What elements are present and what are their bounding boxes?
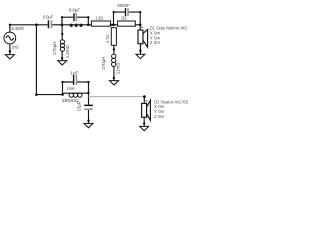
wire 600nF right riser <box>129 12 141 25</box>
svg-text:1µF: 1µF <box>70 70 78 75</box>
wire junction A riser down to low-pass <box>35 25 37 95</box>
capacitor C2 8.0uF plates <box>73 13 77 21</box>
ground G4 under C5 <box>84 123 93 127</box>
wire low-pass horizontal lead <box>36 94 62 96</box>
wire C5 to ground <box>88 110 90 123</box>
minus D1 <box>141 44 143 46</box>
wire right node vertical x=88.5 <box>88 82 90 105</box>
junction and pin dots <box>9 11 146 125</box>
svg-text:Z 0m: Z 0m <box>154 114 165 119</box>
svg-text:8.0µF: 8.0µF <box>69 7 80 12</box>
plus D1 <box>141 26 143 28</box>
resistor R3 4.7ohm box (vertical) <box>111 28 116 46</box>
svg-text:1.2Ω: 1.2Ω <box>95 16 103 21</box>
ground G3 under L4 <box>110 81 119 85</box>
wire D1 drop <box>139 25 141 30</box>
pin L3 right <box>87 92 89 94</box>
svg-text:12mΩ: 12mΩ <box>115 62 120 74</box>
svg-text:15µF: 15µF <box>77 102 82 112</box>
wire L4 to ground <box>113 67 115 81</box>
pin L1 top <box>61 33 63 35</box>
svg-text:1mH: 1mH <box>67 86 75 91</box>
node low-pass corner <box>35 93 38 96</box>
wire LC top branch left riser <box>62 17 73 25</box>
ground G2 under L1 <box>58 61 67 65</box>
svg-text:4.7Ω: 4.7Ω <box>105 34 110 43</box>
pin R3 bottom <box>113 48 115 50</box>
ground G6 under D2 <box>140 126 149 130</box>
inductor L4 270uH coil <box>112 54 116 58</box>
svg-text:Z 0m: Z 0m <box>150 40 161 45</box>
speaker D2 horn <box>147 100 151 120</box>
minus D2 <box>144 119 146 121</box>
pin 600nF right corner <box>139 11 141 13</box>
speaker D1 box <box>138 30 143 44</box>
capacitor C1 6.0uF plates <box>48 20 53 28</box>
wire 1uF branch right <box>77 81 88 83</box>
value labels <box>11 3 130 112</box>
wire R3 to L4 <box>113 45 115 54</box>
resistor R2 15ohm box <box>118 21 136 26</box>
wire gray line to D2 <box>89 96 145 98</box>
inductor L3 1mH line <box>63 93 89 94</box>
wire rail R1 to R2 <box>111 24 118 26</box>
wire node B riser down (shunt L1 branch) <box>61 25 63 40</box>
node LC left top pin <box>61 16 63 18</box>
wire junction node C riser (600nF left) <box>114 12 126 25</box>
voltage source V1 sine wave <box>6 36 14 40</box>
wire rail R2 to D1 corner <box>135 24 140 26</box>
svg-text:6.0µF: 6.0µF <box>43 15 53 20</box>
speaker D2 box <box>142 103 147 117</box>
node C top corner pin <box>87 16 89 18</box>
node C junction <box>87 24 90 27</box>
svg-text:1mΩ: 1mΩ <box>12 44 19 49</box>
pin C5 bottom <box>87 120 89 122</box>
pin source ground <box>9 50 11 52</box>
speaker D1 horn <box>143 29 148 47</box>
svg-text:270µH: 270µH <box>101 57 106 70</box>
svg-text:2.83V: 2.83V <box>11 26 25 31</box>
voltage source V1 stem bottom <box>9 44 11 55</box>
pin 1uF right corner <box>87 81 89 83</box>
wire main rail left segment <box>10 24 48 26</box>
wire D2 drop <box>143 97 145 104</box>
node A junction <box>35 24 38 27</box>
resistor R1 1.2ohm box <box>91 21 110 26</box>
svg-text:1.2mΩ: 1.2mΩ <box>65 45 70 59</box>
pin 600nF left corner <box>113 11 115 13</box>
pin L1 bottom <box>61 57 63 59</box>
wire LC top branch right <box>77 17 88 25</box>
pin D2 bottom <box>143 122 145 124</box>
node D2 corner <box>143 95 146 98</box>
node B junction <box>61 24 64 27</box>
inductor L2 main line blobs <box>70 24 83 27</box>
voltage source V1 stem top <box>9 25 11 32</box>
wire rail node C to R1 <box>88 24 91 26</box>
polarity marks <box>141 26 148 102</box>
capacitor C3 600nF plates <box>125 8 129 16</box>
pin 1uF left corner <box>61 81 63 83</box>
svg-text:15Ω: 15Ω <box>121 16 127 21</box>
pin R1 right <box>110 24 112 26</box>
inductor L3 1mH coil rings <box>69 93 73 97</box>
svg-text:600nF: 600nF <box>117 3 130 8</box>
capacitor C5 15uF plates (vertical) <box>84 105 93 110</box>
pin D1 bottom <box>139 50 141 52</box>
wire rail between C1 and node B <box>52 24 62 26</box>
svg-text:270µH: 270µH <box>52 42 57 55</box>
voltage source V1 circle <box>4 32 16 44</box>
node source top <box>9 24 11 26</box>
wire rail LC bottom branch <box>62 24 88 26</box>
wire D1 to ground <box>139 44 141 54</box>
wire D2 to ground <box>143 117 145 126</box>
plus D2 <box>146 100 148 102</box>
node D junction <box>112 24 115 27</box>
driver text blocks <box>150 26 188 119</box>
node low-pass left <box>61 93 64 96</box>
wire 1uF branch left riser <box>63 82 74 95</box>
ground G1 under source <box>5 55 14 59</box>
ground G5 under D1 <box>136 54 145 58</box>
capacitor C4 1uF plates <box>73 75 77 85</box>
inductor L1 270uH shunt coil <box>60 40 64 44</box>
node D1 corner <box>139 24 142 27</box>
pin L4 bottom <box>113 77 115 79</box>
wire L1 to ground <box>61 51 63 60</box>
